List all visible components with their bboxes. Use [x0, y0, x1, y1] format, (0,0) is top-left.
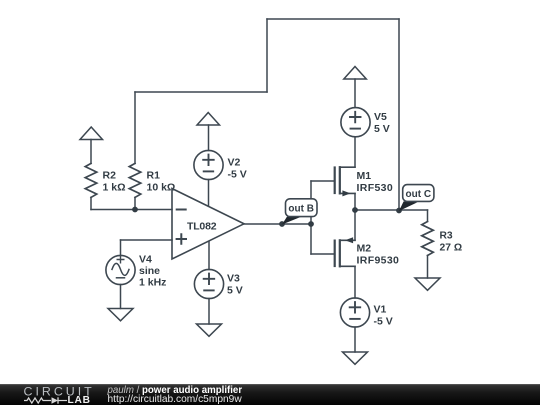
junction: out C anchor — [396, 208, 402, 214]
svg-text:R1: R1 — [147, 170, 161, 182]
wire: V5 plus to power flag — [354, 79, 356, 108]
svg-text:V2: V2 — [228, 157, 241, 169]
wire: V2 plus to power flag — [208, 125, 210, 151]
svg-text:M1: M1 — [357, 170, 372, 182]
svg-text:out B: out B — [288, 204, 314, 215]
logo resistor zigzag — [24, 398, 51, 403]
wire: R3 top lead — [427, 210, 429, 222]
wire: V4 top vertical — [120, 240, 122, 256]
wire: V5 minus to M1 drain — [354, 137, 356, 167]
wire: M1 source to M2 drain vertical — [354, 194, 356, 241]
wire: feedback vertical at x=267 — [266, 19, 268, 92]
ground below R3 — [415, 278, 440, 290]
ground below V4 — [108, 309, 133, 321]
wire: feedback horizontal upper-left — [135, 91, 267, 93]
svg-text:M2: M2 — [357, 243, 372, 255]
wire: inverting input bus (R2/R1 bottom to op-amp minus) — [91, 209, 172, 211]
op-amp U1 TL082 — [172, 189, 244, 260]
svg-text:http://circuitlab.com/c5mpn9w: http://circuitlab.com/c5mpn9w — [108, 394, 243, 405]
logo CIRCUIT text — [24, 385, 95, 399]
svg-text:-5 V: -5 V — [374, 316, 393, 328]
svg-text:V3: V3 — [227, 273, 240, 285]
voltage source V3 — [194, 269, 242, 298]
wire: V3 minus to ground — [208, 299, 210, 325]
svg-text:5 V: 5 V — [374, 123, 390, 135]
wire: op-amp output to gate node — [244, 223, 311, 225]
svg-text:1 kΩ: 1 kΩ — [103, 182, 126, 194]
voltage source V2 — [194, 150, 247, 180]
wire: non-inverting input horizontal from V4 — [121, 239, 173, 241]
svg-text:V1: V1 — [374, 304, 387, 316]
junction: R1 / inverting bus — [132, 207, 138, 213]
wire: R1 top lead vertical — [134, 92, 136, 163]
transistor M2 IRF9530 — [311, 237, 399, 266]
transistor M1 IRF530 — [311, 167, 393, 196]
resistor R1 — [129, 163, 175, 197]
svg-text:5 V: 5 V — [227, 285, 243, 297]
svg-text:LAB: LAB — [68, 395, 91, 405]
wire: R3 bottom lead — [427, 256, 429, 279]
ground below V3 — [197, 324, 222, 336]
svg-text:sine: sine — [139, 265, 160, 277]
svg-text:10 kΩ: 10 kΩ — [147, 182, 176, 194]
wire: feedback right vertical down to out C node — [398, 19, 400, 211]
logo diode symbol — [52, 397, 68, 403]
resistor R2 — [85, 163, 125, 197]
svg-text:V4: V4 — [139, 254, 152, 266]
node out C flag — [399, 185, 434, 211]
wire: feedback top horizontal — [267, 18, 399, 20]
wire: V2 minus to op-amp V+ pin — [208, 180, 210, 207]
wire: V1 minus to ground — [354, 327, 356, 352]
svg-text:R3: R3 — [440, 231, 453, 242]
footer url line — [108, 394, 243, 405]
svg-text:IRF530: IRF530 — [357, 182, 394, 194]
svg-text:-5 V: -5 V — [228, 169, 247, 181]
voltage source V1 — [340, 298, 392, 328]
power flag above R2 — [80, 127, 103, 140]
svg-text:IRF9530: IRF9530 — [357, 255, 400, 267]
wire: output node horizontal to R3 — [355, 209, 428, 211]
svg-text:R2: R2 — [103, 170, 117, 182]
power flag above V5 — [344, 67, 367, 80]
resistor R3 — [422, 222, 462, 256]
footer title line — [107, 385, 243, 396]
svg-text:TL082: TL082 — [187, 220, 217, 232]
wire: R1 bottom lead — [134, 197, 136, 209]
svg-text:out C: out C — [406, 189, 432, 200]
footer bar — [0, 384, 540, 405]
wire: V4 minus to ground — [120, 285, 122, 309]
svg-text:1 kHz: 1 kHz — [139, 277, 166, 289]
ground below V1 — [343, 352, 368, 364]
junction: gate bus — [308, 221, 314, 227]
wire: R2 bottom lead — [90, 197, 92, 209]
wire: op-amp V- pin to V3 plus — [208, 242, 210, 270]
junction: out B anchor — [279, 221, 285, 227]
junction: M1/M2 output node — [352, 207, 358, 213]
svg-text:27 Ω: 27 Ω — [440, 242, 463, 253]
power flag above V2 — [197, 113, 220, 126]
voltage source V4 (sine) — [106, 254, 167, 289]
voltage source V5 — [341, 108, 390, 137]
wire: R2 top lead — [90, 140, 92, 164]
node out B flag — [282, 199, 317, 225]
wire: M2 source down to V1 — [354, 266, 356, 298]
logo LAB text — [68, 395, 91, 405]
wire: gate bus vertical M1-M2 — [310, 181, 312, 254]
svg-text:V5: V5 — [374, 111, 387, 123]
